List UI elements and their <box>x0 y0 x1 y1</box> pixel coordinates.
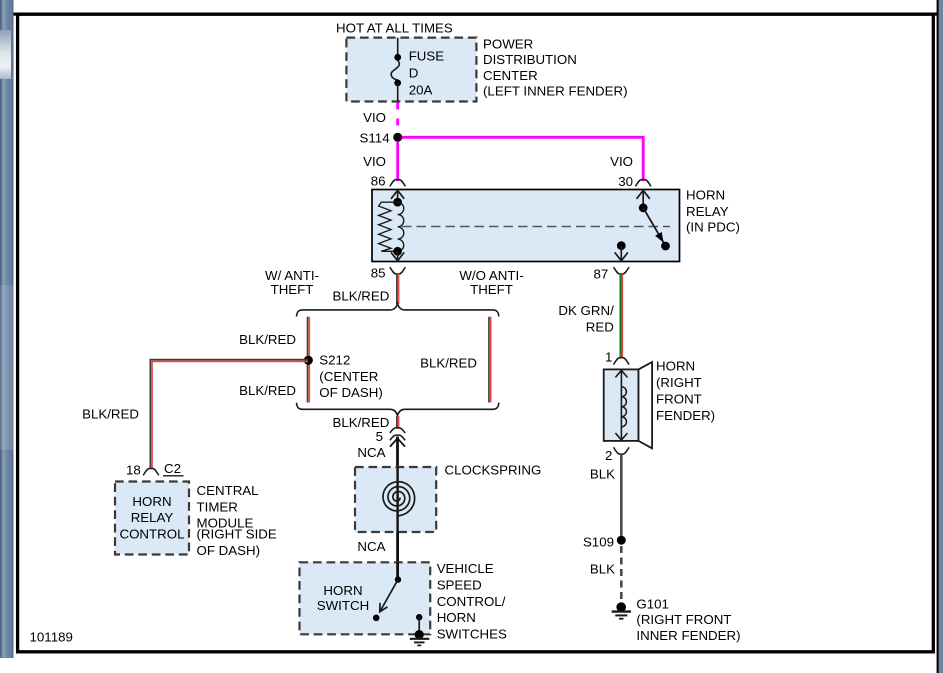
relay coil windings <box>398 202 404 251</box>
svg-text:BLK: BLK <box>590 466 615 481</box>
svg-text:HORN: HORN <box>686 188 725 203</box>
svg-text:NCA: NCA <box>357 445 385 460</box>
svg-text:FUSE: FUSE <box>409 49 445 64</box>
svg-text:BLK/RED: BLK/RED <box>332 415 389 430</box>
central timer module box <box>115 482 189 555</box>
splice S109 <box>617 536 626 545</box>
svg-text:C2: C2 <box>164 461 181 476</box>
svg-text:S109: S109 <box>583 535 614 550</box>
wire BLK/RED right branch <box>488 317 490 403</box>
wire VIO dashed from fuse <box>396 103 399 133</box>
top border line <box>14 13 938 16</box>
svg-text:THEFT: THEFT <box>271 282 314 297</box>
wire BLK/RED brace to connector 5 <box>396 416 398 429</box>
ground G switch <box>410 638 430 640</box>
svg-text:DISTRIBUTION: DISTRIBUTION <box>483 52 577 67</box>
svg-text:NCA: NCA <box>357 539 385 554</box>
svg-text:BLK/RED: BLK/RED <box>420 355 477 370</box>
svg-text:(CENTER: (CENTER <box>319 369 378 384</box>
svg-text:HORN: HORN <box>437 610 476 625</box>
scrollbar thumb <box>0 30 11 79</box>
svg-text:(RIGHT FRONT: (RIGHT FRONT <box>636 612 731 627</box>
svg-text:S114: S114 <box>360 130 390 145</box>
svg-text:BLK/RED: BLK/RED <box>82 406 139 421</box>
svg-text:30: 30 <box>618 174 633 189</box>
svg-text:D: D <box>409 65 419 80</box>
svg-text:CENTRAL: CENTRAL <box>197 483 259 498</box>
relay coil node bottom <box>393 247 402 256</box>
wire DK GRN/RED relay 87 to horn <box>620 274 622 359</box>
brace split top <box>297 304 499 317</box>
scrollbar mid highlight <box>0 285 14 450</box>
wire NCA into horn switch <box>396 562 399 579</box>
svg-text:101189: 101189 <box>30 630 73 645</box>
horn relay box <box>372 190 680 262</box>
wire BLK horn to S109 <box>620 454 623 540</box>
relay coil terminal 85 arrow <box>397 251 399 261</box>
svg-text:VIO: VIO <box>610 154 633 169</box>
wire NCA clockspring to horn switch <box>396 532 399 580</box>
relay internal dashed divider <box>402 226 670 228</box>
svg-text:VIO: VIO <box>363 154 386 169</box>
svg-text:OF DASH): OF DASH) <box>319 385 383 400</box>
horn body <box>604 369 639 441</box>
svg-text:85: 85 <box>371 266 386 281</box>
svg-text:HORN: HORN <box>656 359 695 374</box>
splice S114 <box>393 133 402 142</box>
svg-text:86: 86 <box>371 174 386 189</box>
right window scrollbar strip <box>939 0 943 673</box>
svg-text:CONTROL/: CONTROL/ <box>437 594 506 609</box>
svg-text:POWER: POWER <box>483 37 533 52</box>
svg-text:CONTROL: CONTROL <box>119 526 184 541</box>
svg-text:BLK/RED: BLK/RED <box>239 383 296 398</box>
svg-text:TIMER: TIMER <box>197 499 238 514</box>
relay switch contact node <box>661 242 670 251</box>
svg-text:DK GRN/: DK GRN/ <box>558 303 614 318</box>
horn switch box <box>300 562 431 634</box>
clockspring spiral <box>396 467 398 532</box>
splice S212 <box>304 356 313 365</box>
svg-text:(LEFT INNER FENDER): (LEFT INNER FENDER) <box>483 84 628 99</box>
svg-text:2: 2 <box>605 448 612 463</box>
power distribution center box (dashed) <box>346 38 476 102</box>
fuse D <box>394 54 401 61</box>
wire BLK/RED relay 85 to brace <box>396 274 398 305</box>
svg-text:W/O ANTI-: W/O ANTI- <box>459 268 523 283</box>
relay switch terminal 87 node <box>617 241 626 250</box>
relay coil terminal 86 arrow <box>397 190 399 203</box>
svg-text:HORN: HORN <box>132 494 171 509</box>
wire fuse to box edge <box>397 83 399 102</box>
svg-text:OF DASH): OF DASH) <box>197 543 261 558</box>
horn coil <box>620 369 622 441</box>
svg-text:18: 18 <box>126 462 141 477</box>
svg-text:SPEED: SPEED <box>437 577 482 592</box>
svg-text:S212: S212 <box>319 353 350 368</box>
svg-text:CLOCKSPRING: CLOCKSPRING <box>445 463 542 478</box>
svg-text:HOT AT ALL TIMES: HOT AT ALL TIMES <box>336 20 453 35</box>
svg-text:FENDER): FENDER) <box>656 408 715 423</box>
svg-text:BLK: BLK <box>590 562 615 577</box>
wire BLK/RED S212 to CTM <box>150 360 308 469</box>
horn switch contact <box>373 615 380 622</box>
svg-text:SWITCH: SWITCH <box>317 598 369 613</box>
svg-text:G101: G101 <box>636 597 669 612</box>
svg-text:20A: 20A <box>409 82 433 97</box>
horn trumpet <box>639 362 653 448</box>
wire BLK/RED left branch <box>307 317 309 403</box>
horn switch ground node <box>416 614 422 620</box>
horn switch blade with arrow <box>380 580 398 612</box>
relay coil node top <box>393 198 402 207</box>
svg-text:BLK/RED: BLK/RED <box>332 289 389 304</box>
svg-text:5: 5 <box>376 429 383 444</box>
wire fuse feed <box>397 38 399 57</box>
clockspring box <box>355 467 436 532</box>
svg-text:BLK/RED: BLK/RED <box>239 332 296 347</box>
svg-text:FRONT: FRONT <box>656 391 702 406</box>
relay switch common node <box>639 203 648 212</box>
relay switch blade <box>643 208 665 246</box>
svg-text:SWITCHES: SWITCHES <box>437 627 507 642</box>
wire NCA with arrow <box>396 437 399 468</box>
ground G101 <box>616 602 626 612</box>
svg-text:(RIGHT SIDE: (RIGHT SIDE <box>197 527 277 542</box>
svg-text:HORN: HORN <box>323 583 362 598</box>
svg-text:THEFT: THEFT <box>470 282 513 297</box>
relay coil resistor zigzag <box>379 202 398 251</box>
svg-text:RED: RED <box>586 320 614 335</box>
wire VIO S114 to relay 30 <box>402 137 643 181</box>
wire VIO S114 to relay 86 <box>396 142 399 181</box>
brace merge bottom <box>297 403 499 416</box>
svg-text:1: 1 <box>605 349 612 364</box>
svg-text:RELAY: RELAY <box>131 510 174 525</box>
svg-text:RELAY: RELAY <box>686 204 729 219</box>
svg-text:VEHICLE: VEHICLE <box>437 561 494 576</box>
relay switch terminal 30 arrow <box>642 190 644 208</box>
svg-text:INNER FENDER): INNER FENDER) <box>636 628 740 643</box>
svg-text:W/ ANTI-: W/ ANTI- <box>265 268 319 283</box>
svg-text:(IN PDC): (IN PDC) <box>686 219 740 234</box>
svg-text:CENTER: CENTER <box>483 68 538 83</box>
svg-text:(RIGHT: (RIGHT <box>656 375 702 390</box>
left window scrollbar strip <box>0 0 14 658</box>
wire BLK dashed S109 to G101 <box>620 546 623 601</box>
svg-text:VIO: VIO <box>363 110 386 125</box>
page right edge line <box>937 0 939 673</box>
svg-text:87: 87 <box>594 267 609 282</box>
horn switch pivot <box>395 576 401 582</box>
relay switch terminal 87 arrow <box>620 246 622 262</box>
